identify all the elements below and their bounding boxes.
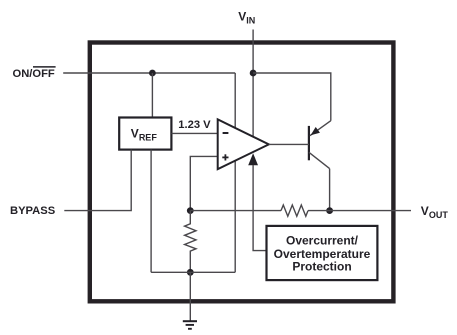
wire output to VOUT — [308, 210, 411, 212]
wire VREF output to inverting input — [171, 132, 217, 134]
plus input symbol — [222, 154, 228, 160]
wire bottom rail — [151, 271, 235, 273]
pin label ON/OFF — [13, 67, 56, 80]
wire shutdown line lower segment — [234, 161, 236, 272]
wire VREF ground stub — [150, 150, 152, 273]
node feedback top — [187, 207, 194, 214]
node feedback bottom — [187, 269, 194, 276]
svg-text:ON/OFF: ON/OFF — [13, 68, 55, 80]
minus input symbol — [223, 132, 229, 134]
wire VIN vertical — [252, 30, 254, 137]
transistor Q1 PNP pass element — [308, 121, 330, 169]
wire VIN rail to emitter — [253, 73, 331, 121]
wire output line left of sense resistor — [190, 210, 281, 212]
wire collector to output node — [329, 169, 331, 211]
wire base from op-amp output — [269, 143, 309, 145]
wire feedback to plus input — [190, 156, 217, 210]
wire shutdown line upper segment — [234, 73, 236, 128]
ground symbol — [183, 321, 197, 329]
node output junction — [326, 207, 333, 214]
svg-text:Protection: Protection — [292, 259, 351, 273]
wire ground — [189, 272, 191, 321]
wire ON/OFF rail — [63, 72, 235, 74]
node ON/OFF junction — [149, 70, 156, 77]
wire protection drive with arrow — [248, 153, 266, 250]
block VREF — [119, 118, 171, 150]
op-amp error amplifier — [218, 119, 269, 169]
resistor R1 sense (horizontal) — [281, 205, 308, 216]
block overcurrent overtemperature protection — [267, 226, 378, 280]
node VIN junction — [250, 70, 257, 77]
resistor R2 feedback divider (vertical) — [185, 211, 196, 273]
IC boundary box — [90, 43, 394, 302]
wire ON/OFF to VREF — [151, 73, 153, 118]
svg-text:BYPASS: BYPASS — [10, 205, 56, 217]
wire BYPASS — [64, 150, 131, 211]
svg-text:Overcurrent/: Overcurrent/ — [286, 233, 359, 247]
svg-text:1.23 V: 1.23 V — [178, 119, 211, 131]
